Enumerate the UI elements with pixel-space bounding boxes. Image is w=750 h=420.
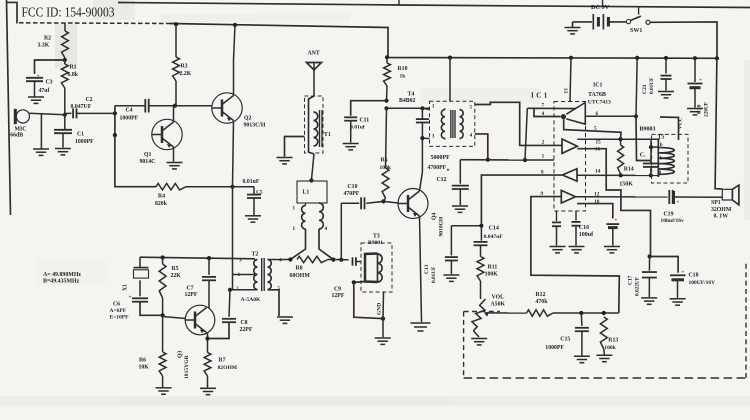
svg-text:12PF: 12PF [185,292,198,298]
ground under pin10 cap [604,246,620,248]
svg-text:82OHM: 82OHM [218,365,238,371]
Q4 emitter wire to ground [420,216,422,322]
svg-text:C13: C13 [424,264,430,274]
ground under C3 [28,96,44,98]
capacitor C9 12PF [352,257,354,265]
svg-text:1: 1 [542,154,545,160]
svg-text:470k: 470k [536,299,549,305]
wire C6 to base node [140,302,163,316]
Q3 collector wire [208,280,210,308]
svg-text:MIC: MIC [15,126,27,132]
svg-text:C2: C2 [86,97,93,103]
dashed PTT box [463,312,465,379]
svg-text:+: + [677,201,680,206]
svg-text:R6: R6 [139,358,146,364]
svg-text:C9: C9 [334,287,341,293]
svg-text:13: 13 [563,88,569,94]
svg-text:0.022UF: 0.022UF [635,277,641,296]
VCC bus upper segment [170,24,717,59]
oscillator coil left winding [302,206,306,230]
pin13 wire to bus [569,56,573,60]
svg-text:5: 5 [470,105,473,111]
svg-text:DC 9V: DC 9V [591,4,610,11]
wire R8 node to C9 [341,259,348,261]
Q1 base node to R4 wire [115,135,156,187]
Q1 emitter wire to ground [173,147,175,162]
svg-text:VOL: VOL [492,294,505,300]
svg-text:T2: T2 [252,252,259,258]
svg-text:470PF: 470PF [344,191,360,197]
svg-text:C1: C1 [77,132,84,138]
T4 pin5 wire to IC pin2 [475,102,562,145]
pot to ground [473,331,479,337]
svg-text:10huf/16v: 10huf/16v [661,218,684,224]
svg-text:0. 1W: 0. 1W [714,214,729,220]
svg-text:1: 1 [432,104,435,110]
capacitor C21 0.01UF [664,56,668,60]
svg-text:Q2: Q2 [244,116,252,122]
T2 pin2 wire [228,288,232,292]
svg-text:150K: 150K [619,181,633,187]
wire to C3 [35,60,65,74]
svg-text:100k: 100k [380,165,392,171]
Q2 collector wire to bus [233,23,237,27]
wire C13 to C14 node [451,225,481,227]
crystal X1 [139,257,141,267]
svg-text:C6: C6 [113,302,120,308]
svg-text:b: b [660,157,663,162]
svg-text:R12: R12 [536,292,546,298]
svg-text:C12: C12 [437,177,447,183]
resistor R13 100k [600,317,607,349]
svg-text:L1: L1 [303,189,310,195]
wire to C11 [351,101,387,116]
wire battery to switch [608,21,626,23]
switch SW1 [626,20,630,24]
capacitor C20 220UF electrolytic [693,56,697,60]
wire MIC to ground [40,114,42,149]
wire C2 to node X [77,112,115,114]
svg-text:220UF: 220UF [704,102,710,117]
T2 pin4 wire to R8 [268,259,291,261]
svg-text:C11: C11 [360,118,370,124]
pin4 wire [534,108,561,116]
svg-text:R11: R11 [488,265,498,271]
wire MIC to node [29,113,64,115]
T5 coil body [657,140,659,178]
wire node to Q2 base [175,105,212,107]
ground under C15 [574,355,590,357]
svg-text:C.: C. [640,152,646,158]
ground under R7 [200,387,216,389]
left winding wire to R8 node [290,229,305,260]
transistor Q2 9013C/H [212,93,242,123]
capacitor C6 electrolytic [139,280,141,296]
T2 pin5 wire to ground [268,290,280,316]
svg-text:B=49.435MHz: B=49.435MHz [43,279,80,285]
wire bus to speaker top [715,56,719,60]
svg-text:R13: R13 [608,338,618,344]
VCC branch down to C cap [636,116,651,160]
T4 secondary winding [460,110,464,139]
wire C19 to speaker [675,196,723,198]
oscillator coil right winding [319,203,323,229]
ground under C12 [452,205,468,207]
wire emitter node down to T2 pin3 line [232,187,234,290]
ground under C1 [55,148,71,150]
wire R4 to emitter node [186,186,233,188]
Q1 collector wire [173,106,175,122]
svg-text:C3: C3 [46,80,53,86]
svg-text:1: 1 [293,226,296,232]
T4 pin4 wire down to pin1 line [475,134,488,160]
svg-text:R8: R8 [296,265,303,271]
ground under C13 [443,274,459,276]
svg-text:1815YGR: 1815YGR [184,354,190,379]
svg-text:100k: 100k [604,345,616,351]
svg-text:UTC7413: UTC7413 [588,99,611,105]
svg-text:C16: C16 [579,225,589,231]
ground under Q4 emitter [411,322,431,324]
ground under pin11 cap [550,246,566,248]
svg-text:14: 14 [595,168,601,174]
microphone MIC -66dB [16,110,29,123]
page top frame line [118,3,750,8]
Q4 collector wire to T4 pin3 [420,172,423,191]
right winding wire to R8 node [319,229,333,260]
svg-text:0.01UF: 0.01UF [649,78,655,94]
svg-text:C4: C4 [126,107,133,113]
resistor R8 68OHM [297,256,328,262]
emitter node dot [230,185,234,189]
wire base node to Q3 [163,317,186,319]
wire R10 node to T4 pin1 [387,107,430,109]
T4 pin1 stub [422,108,429,109]
small tick above DC label [602,0,604,6]
svg-text:C15: C15 [560,337,570,343]
wire C10 left to R8 node [340,203,342,259]
ground under VOL [471,338,487,340]
svg-text:R14: R14 [624,166,634,172]
svg-text:1: 1 [293,206,296,212]
svg-text:820k: 820k [155,201,168,207]
ground under R13 [596,354,612,356]
svg-text:C7: C7 [187,285,194,291]
svg-text:R4: R4 [158,193,165,199]
svg-text:R5: R5 [381,158,388,164]
node R2/R1/C3 [63,58,67,62]
battery wire [573,21,593,23]
pin7 vertical to pin1 node [525,108,527,160]
transistor Q1 9014C [152,119,182,149]
capacitor 5000PF between T4 pins [416,118,429,120]
amp4 triangle [561,190,575,203]
svg-text:T3: T3 [373,234,380,240]
svg-text:10K: 10K [139,365,150,371]
capacitor C11 0.01uf [344,116,357,118]
svg-text:1000PF: 1000PF [75,139,94,145]
ground under MIC [33,148,49,150]
resistor R4 820k [156,184,186,190]
ground under C21 [658,91,674,93]
T1 ground branch [285,137,305,157]
svg-text:SP1: SP1 [711,200,721,206]
svg-text:R7: R7 [219,358,226,364]
svg-text:7: 7 [542,102,545,108]
amp2 triangle [562,139,577,153]
node R10 bottom [384,99,388,103]
resistor R14 150K [618,145,624,174]
svg-text:A50K: A50K [491,301,506,307]
T1 coil [309,96,315,154]
T3 bottom wire to GND node [354,281,365,284]
T5 wire from pin6 node down [660,117,679,140]
ground under C16 [569,246,585,248]
T4 core lines [450,110,452,138]
svg-text:0.01UF: 0.01UF [431,267,437,283]
svg-text:4: 4 [279,258,282,264]
transformer T1 dashed shield box [305,96,324,153]
tick mark at top [398,0,400,5]
ground under T3 [382,319,384,337]
battery B1 cells [592,14,594,30]
svg-text:6.8k: 6.8k [68,72,79,78]
svg-text:C10: C10 [348,184,358,190]
node MIC/C1/C2 [63,113,67,117]
svg-text:R2: R2 [44,36,51,42]
svg-text:A= 49.890MHz: A= 49.890MHz [43,272,81,278]
capacitor C8 22PF [229,290,230,317]
svg-text:47uf: 47uf [39,88,50,94]
svg-text:T5: T5 [658,134,665,140]
T2 pin3 node line from X1 to T2 [140,257,255,259]
wire T1 down to L1 [311,154,314,181]
svg-text:A=6PF: A=6PF [110,308,127,314]
svg-text:TA76B: TA76B [588,92,606,98]
transistor Q3 1815YGR [185,305,215,335]
svg-text:5000PF: 5000PF [431,155,451,161]
capacitor C15 1000PF [580,313,583,326]
T4 pin3 stub [422,137,429,139]
capacitor C16 100uf [575,211,577,221]
svg-text:100UF/16V: 100UF/16V [689,280,716,286]
resistor R2 3.3K [64,23,66,31]
svg-text:2: 2 [236,286,239,292]
svg-text:1k: 1k [400,74,407,80]
svg-text:IC1: IC1 [531,92,550,100]
svg-text:9013C/H: 9013C/H [244,123,266,129]
svg-text:4: 4 [325,226,328,232]
T4 center pin wire to bus [448,56,452,60]
svg-text:0.01uF: 0.01uF [243,179,260,185]
node C17/C18 [648,254,652,258]
svg-text:4: 4 [470,133,473,139]
svg-text:100uf: 100uf [579,232,594,238]
FCC ID title box left edge [7,2,18,23]
IC1 dashed box [554,102,586,212]
svg-text:32OHM: 32OHM [711,207,732,213]
svg-text:b: b [660,143,663,148]
svg-text:-66dB: -66dB [8,133,23,139]
svg-text:4: 4 [542,111,545,117]
svg-text:1000PF: 1000PF [120,115,139,121]
capacitor C4 1000PF [115,105,145,107]
svg-text:GND: GND [377,303,383,315]
svg-text:T4: T4 [408,91,415,97]
stub pin15 to coil [651,146,660,148]
svg-text:3.3K: 3.3K [38,43,50,49]
T4 primary winding [441,110,445,139]
page left edge line [7,0,11,215]
svg-text:3: 3 [432,134,435,140]
svg-text:A-5A0K: A-5A0K [241,297,262,303]
svg-text:X1: X1 [123,284,129,291]
ground under C17 [641,297,657,299]
resistor R1 6.8k [64,60,66,64]
resistor R5 100k [386,108,387,168]
node X vertical [113,111,117,115]
svg-text:C17: C17 [628,275,634,285]
pot wiper arrow [485,312,527,314]
IC pin1 wire [460,159,525,161]
ground under R6 [156,387,172,389]
wire C9 to T3 coil [356,261,361,263]
resistor R11 100K [477,257,484,282]
mixer amp triangle pointing left with input circle [566,103,585,125]
svg-text:T1: T1 [324,132,331,138]
svg-text:0.01uf: 0.01uf [350,125,365,131]
svg-text:C8: C8 [241,320,248,326]
capacitor at pin11 to ground [556,211,558,221]
wire SW1 to bus [650,22,717,58]
svg-text:Q1: Q1 [144,152,152,158]
VCC vertical from bus to pin6 node [635,56,639,60]
ground under Q1 [167,162,183,164]
ground under C11 [343,143,359,145]
wire C8 to emitter node [208,322,230,338]
resistor R6 10K [162,315,164,352]
AF line to corner [553,312,619,314]
collector node dot [173,104,177,108]
svg-text:FCC ID: 154-90003: FCC ID: 154-90003 [22,4,115,19]
resistor R10 [385,55,389,59]
ground under C5 [245,215,261,217]
capacitor C12 body [459,160,461,184]
transistor Q4 9018GH [398,189,428,219]
svg-text:C14: C14 [489,226,499,232]
inductor L1 box [297,181,327,203]
Q3 emitter wire [207,333,209,353]
svg-text:9018GH: 9018GH [439,216,445,237]
wire to Q4 base [383,201,398,203]
svg-text:B4B02: B4B02 [399,98,416,104]
svg-text:R10: R10 [398,66,408,72]
svg-text:Q4: Q4 [432,212,438,220]
svg-text:12PF: 12PF [332,293,345,299]
svg-text:3: 3 [239,258,242,264]
svg-text:SW1: SW1 [630,28,642,34]
capacitor C. between pin15 and pin14 [649,145,653,149]
svg-text:9014C: 9014C [140,159,156,165]
svg-text:22PF: 22PF [240,327,253,333]
svg-text:R3: R3 [181,64,188,70]
capacitor C19 electrolytic [668,190,670,204]
ground under C20 [687,108,703,110]
svg-text:+: + [615,219,618,224]
ground under C18 [670,298,686,300]
svg-text:Q3: Q3 [178,350,184,358]
svg-text:*: * [447,169,450,175]
resistor R3 2.2K [174,22,178,26]
svg-text:C18: C18 [689,273,699,279]
T2 pin1 stub [233,274,258,276]
speaker SP1 32OHM 0.1W [722,189,732,200]
T3 box pin down [382,292,385,319]
svg-text:68OHM: 68OHM [290,273,311,279]
resistor R7 82OHM [204,353,211,377]
svg-text:C19: C19 [664,212,674,218]
svg-text:+: + [129,295,132,301]
amp3 triangle pointing left [562,169,577,181]
svg-text:2.2K: 2.2K [180,71,192,77]
node C10/Q4 base [381,199,385,203]
pin7 wire [527,107,576,109]
capacitor C7 12PF [207,256,211,260]
svg-text:E=10PF: E=10PF [110,315,130,321]
svg-text:0.047UF: 0.047UF [71,104,92,110]
ground under T2 pin5 [277,316,293,318]
base node dot [161,313,165,317]
svg-text:22K: 22K [171,273,182,279]
svg-text:R5: R5 [172,266,179,272]
svg-text:15: 15 [596,139,602,145]
T3 gnd wire path [354,282,383,318]
svg-text:0.047uF: 0.047uF [484,234,504,240]
resistor R5 22K [159,264,166,298]
VCC bus dashed segment under title [19,22,170,25]
battery ground [565,27,581,29]
svg-text:2: 2 [542,140,545,146]
svg-text:IC1: IC1 [593,83,602,89]
svg-text:C21: C21 [642,84,648,94]
ground at T1 [277,157,293,159]
svg-text:R1: R1 [70,65,77,71]
svg-text:B9003: B9003 [640,127,656,133]
Q2 emitter wire down [233,121,234,187]
svg-text:4700PF: 4700PF [428,165,447,171]
wire to C18 [650,257,679,273]
capacitor C1 1000PF [64,115,66,130]
svg-text:1000PF: 1000PF [545,345,564,351]
capacitor C2 0.047UF [65,112,72,114]
T3 coil body [365,254,378,283]
svg-text:100K: 100K [485,272,499,278]
svg-text:ANT: ANT [308,51,320,57]
wire C4 to collector node [149,105,175,107]
